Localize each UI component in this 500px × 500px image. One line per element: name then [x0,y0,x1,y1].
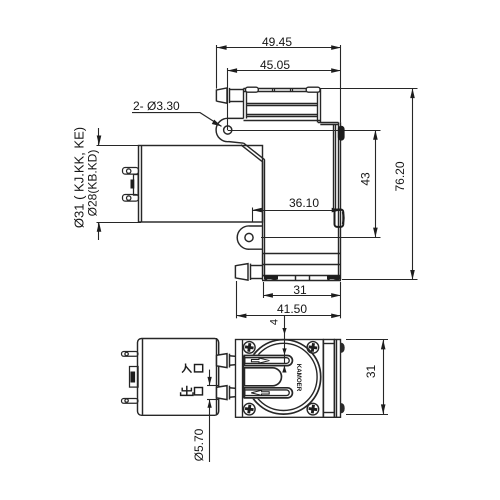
glyph 入 (inlet) [182,364,192,373]
svg-text:Ø31 ( KJ.KK, KE): Ø31 ( KJ.KK, KE) [72,127,87,228]
motor terminal lower (side view) [123,195,139,202]
pump chamber circle [246,340,320,414]
svg-text:2- Ø3.30: 2- Ø3.30 [133,99,180,113]
upper slot [244,356,292,366]
svg-text:49.45: 49.45 [262,35,292,49]
dimension 31 (side view bottom) [263,282,341,298]
dimension 31 (bottom view) [346,340,388,415]
right mounting ear upper (edge view) [339,127,344,140]
glyph 口 of 入口 [195,365,203,372]
motor body (side view) [139,145,263,222]
dimension Ø31 / Ø28 motor diameter [72,127,142,240]
pump head top cover tabs [246,87,321,92]
svg-text:43: 43 [359,172,373,186]
dimension 36.10 [252,196,341,222]
motor terminal upper (side view) [123,168,139,175]
inlet barb port (bottom view upper) [217,354,244,368]
left mounting ear lower with hole [237,226,262,249]
svg-text:41.50: 41.50 [277,302,307,316]
motor body (bottom view) [138,338,219,415]
dimension 43 [228,130,381,238]
svg-text:36.10: 36.10 [289,196,319,210]
glyph 口 of 出口 [195,388,203,395]
right ear tabs (bottom view) [341,343,345,413]
svg-text:31: 31 [364,365,378,379]
svg-text:KAMOER: KAMOER [295,364,302,392]
left mounting ear upper with hole [216,118,244,143]
middle tongue [244,368,281,386]
flow arrow in lower slot (points left) [251,390,269,395]
top-right step of bracket [318,123,339,125]
svg-text:31: 31 [293,283,307,297]
motor brush cap (side view) [131,175,139,196]
motor bracket diagonal [241,143,265,254]
svg-text:Ø28(KB.KD): Ø28(KB.KD) [86,150,100,217]
svg-text:4: 4 [269,319,281,325]
svg-text:76.20: 76.20 [393,161,407,191]
dimension 41.50 (side view bottom) [237,281,342,318]
chamber left wall [242,356,244,398]
lower slot [244,388,292,398]
svg-text:Ø5.70: Ø5.70 [192,428,206,461]
inlet barb port (side view top-left) [216,88,243,103]
outlet barb port (bottom view lower) [217,386,244,400]
chamber slots erase region [245,355,293,399]
bottom feet pads [264,275,341,280]
dimension Ø5.70 (port diameter) [192,370,218,462]
dimension 76.20 [320,88,417,279]
dimension 4 (slot width) [269,316,287,373]
motor terminal pins (bottom view) [122,352,139,404]
dimension 49.45 [217,35,342,89]
right bracket bands (bottom view) [324,340,341,418]
svg-text:45.05: 45.05 [260,58,290,72]
labels 入口 / 出口 (drawn glyphs) [181,364,203,396]
right mounting ear lower (edge view) [335,210,344,227]
outlet barb port (side view bottom-left) [235,264,262,281]
pump bottom housing (side view) [262,254,341,281]
flow arrow in upper slot (points right) [251,358,269,363]
pump head plate (bottom view) [236,339,324,417]
pump head block (side view) [244,88,321,122]
label 2-Ø3.30 with leader [132,99,222,126]
dimension 45.05 [227,45,341,130]
corner screws [244,342,319,415]
bracket right edge (side view) [334,122,341,280]
motor brush cap (bottom view) [130,367,139,388]
glyph 出 (outlet) [181,386,193,396]
